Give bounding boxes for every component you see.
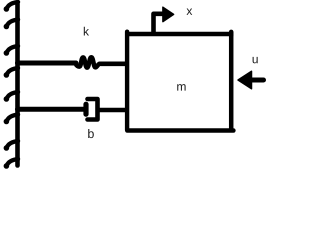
damper cylinder: [88, 99, 98, 120]
arrow x riser: [154, 14, 164, 33]
label u: [253, 57, 258, 63]
spring k coil: [76, 57, 100, 67]
wall hatch 8: [6, 159, 18, 166]
arrow u head: [238, 71, 252, 88]
label k: [84, 27, 89, 36]
wall hatch 6: [6, 115, 18, 122]
label m: [177, 84, 185, 90]
wall hatch 5: [6, 92, 18, 99]
wall hatch 7: [6, 141, 18, 148]
damper rod left: [18, 107, 85, 112]
mass box left edge: [125, 32, 129, 130]
mass box bottom edge: [127, 128, 233, 133]
wall hatch 4: [6, 68, 18, 75]
spring rod left: [18, 61, 77, 66]
arrow x head: [163, 7, 174, 21]
wall hatch 1: [6, 2, 18, 9]
wall hatch 2: [6, 20, 18, 27]
damper piston plate: [83, 104, 88, 114]
spring rod right: [101, 61, 127, 66]
wall: [15, 4, 20, 166]
label x: [187, 9, 193, 15]
mass box top edge: [125, 32, 234, 36]
mass box right edge: [229, 32, 234, 130]
label b: [88, 129, 94, 138]
wall hatch 3: [6, 46, 18, 53]
arrow u shaft: [251, 78, 264, 83]
damper rod right: [99, 108, 126, 113]
